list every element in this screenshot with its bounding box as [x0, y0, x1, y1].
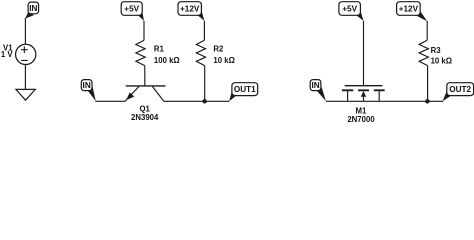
svg-text:R2: R2 — [213, 45, 224, 54]
svg-text:IN: IN — [311, 81, 319, 90]
svg-text:2N7000: 2N7000 — [347, 115, 375, 124]
svg-text:100 kΩ: 100 kΩ — [154, 56, 180, 65]
svg-text:+5V: +5V — [342, 5, 357, 14]
svg-text:OUT2: OUT2 — [449, 85, 471, 94]
svg-text:IN: IN — [29, 4, 37, 13]
svg-text:OUT1: OUT1 — [234, 85, 256, 94]
svg-text:10 kΩ: 10 kΩ — [431, 57, 452, 66]
svg-text:1 V: 1 V — [1, 50, 14, 59]
svg-text:R1: R1 — [154, 45, 165, 54]
svg-text:+12V: +12V — [399, 5, 419, 14]
svg-text:R3: R3 — [431, 46, 442, 55]
svg-text:+5V: +5V — [124, 5, 139, 14]
svg-text:2N3904: 2N3904 — [131, 113, 159, 122]
svg-text:10 kΩ: 10 kΩ — [213, 56, 234, 65]
svg-text:+12V: +12V — [180, 5, 200, 14]
svg-text:IN: IN — [83, 81, 91, 90]
